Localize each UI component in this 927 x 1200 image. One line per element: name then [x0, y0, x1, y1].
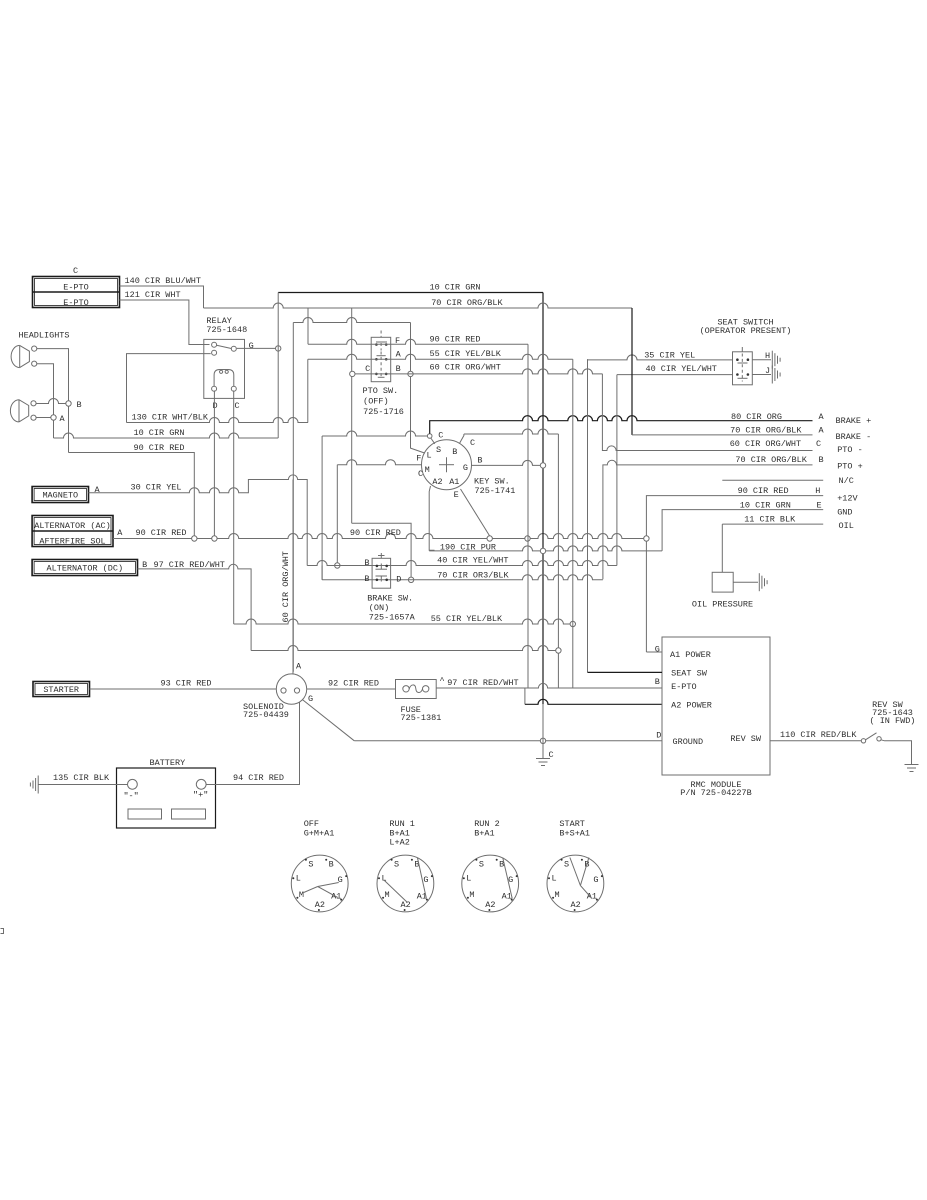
- wire wire 92 CIR RED: [307, 688, 396, 690]
- wire riser 410 to key L: [411, 323, 425, 454]
- svg-text:A1: A1: [449, 477, 459, 487]
- wire 10 CIR GRN lower: [54, 433, 279, 438]
- svg-text:A: A: [396, 350, 402, 360]
- svg-text:70 CIR ORG/BLK: 70 CIR ORG/BLK: [431, 298, 503, 308]
- svg-text:B: B: [655, 677, 660, 687]
- key position diagram START: [547, 855, 604, 912]
- wire 94 CIR RED: [206, 702, 299, 785]
- svg-text:725-04439: 725-04439: [243, 710, 289, 720]
- svg-text:70 CIR OR3/BLK: 70 CIR OR3/BLK: [437, 571, 509, 581]
- svg-text:40 CIR YEL/WHT: 40 CIR YEL/WHT: [437, 556, 508, 566]
- STARTER box: [33, 682, 90, 697]
- ground rev sw ground: [905, 764, 919, 766]
- svg-text:AFTERFIRE SOL: AFTERFIRE SOL: [39, 537, 105, 547]
- svg-text:C: C: [470, 438, 475, 448]
- svg-text:L: L: [551, 873, 556, 883]
- svg-text:C: C: [816, 439, 821, 449]
- node junction 97 row: [556, 648, 561, 653]
- wire key C2 diagonal: [460, 434, 464, 443]
- svg-text:725-1741: 725-1741: [475, 486, 516, 496]
- svg-text:G: G: [338, 875, 343, 885]
- svg-text:M: M: [425, 465, 430, 475]
- node junction 190PUR 10GRN: [540, 548, 545, 553]
- headlight lamp top: [19, 345, 21, 367]
- node node B: [66, 401, 71, 406]
- wire +12V row: [646, 496, 823, 536]
- svg-text:B: B: [452, 447, 457, 457]
- svg-text:40 CIR YEL/WHT: 40 CIR YEL/WHT: [646, 364, 717, 374]
- svg-text:HEADLIGHTS: HEADLIGHTS: [19, 331, 70, 341]
- svg-text:55 CIR YEL/BLK: 55 CIR YEL/BLK: [431, 614, 503, 624]
- svg-text:ALTERNATOR (DC): ALTERNATOR (DC): [47, 564, 124, 574]
- svg-text:725-1716: 725-1716: [363, 407, 404, 417]
- key switch 725-1741: [422, 440, 472, 490]
- svg-text:(OPERATOR PRESENT): (OPERATOR PRESENT): [700, 326, 792, 336]
- svg-text:B: B: [77, 400, 82, 410]
- svg-text:PTO +: PTO +: [837, 462, 863, 472]
- svg-text:GND: GND: [837, 508, 852, 518]
- wire relay G to junction: [237, 347, 279, 349]
- svg-text:30 CIR YEL: 30 CIR YEL: [131, 483, 182, 493]
- svg-text:A2 POWER: A2 POWER: [671, 701, 712, 711]
- RMC module P/N 725-04227B: [662, 637, 770, 775]
- wire 97 CIR RED/WHT from alternator DC: [138, 564, 252, 650]
- svg-text:A2: A2: [485, 900, 495, 910]
- wire 40 CIR YEL/WHT row: [307, 561, 617, 566]
- wire wire GROUND row: [354, 740, 662, 742]
- svg-text:60 CIR ORG/WHT: 60 CIR ORG/WHT: [430, 363, 501, 373]
- wire 70 CIR OR3/BLK row: [322, 575, 603, 580]
- svg-text:M: M: [469, 890, 474, 900]
- svg-text:E-PTO: E-PTO: [671, 682, 697, 692]
- svg-text:"-": "-": [123, 791, 138, 801]
- node junction 351 on 60ORG row: [350, 371, 355, 376]
- wire 35 CIR YEL: [588, 355, 733, 360]
- svg-text:M: M: [555, 890, 560, 900]
- node key C pin: [427, 434, 432, 439]
- svg-text:L: L: [466, 873, 471, 883]
- wire wire BRAKE- row: [632, 434, 813, 436]
- svg-text:B: B: [819, 455, 824, 465]
- wire wire 135 CIR BLK: [38, 784, 127, 786]
- svg-text:G: G: [655, 645, 660, 655]
- svg-text:E: E: [817, 501, 822, 511]
- svg-text:G: G: [308, 694, 313, 704]
- svg-text:F: F: [416, 453, 421, 463]
- svg-text:SEAT SW: SEAT SW: [671, 669, 708, 679]
- svg-text:N/C: N/C: [839, 476, 854, 486]
- wire 97 CIR RED/WHT alt row: [251, 646, 558, 651]
- svg-text:G+M+A1: G+M+A1: [304, 828, 335, 838]
- PTO switch actuator: [380, 331, 382, 337]
- node junction 90RED at 213: [212, 536, 217, 541]
- svg-text:60 CIR ORG/WHT: 60 CIR ORG/WHT: [281, 551, 291, 622]
- svg-text:B: B: [477, 455, 482, 465]
- node junction 90RED at 193: [192, 536, 197, 541]
- svg-text:L: L: [296, 873, 301, 883]
- key position diagram RUN2: [462, 855, 519, 912]
- key position diagram RUN1: [377, 855, 434, 912]
- ground oil pressure ground: [758, 573, 760, 591]
- svg-text:80 CIR ORG: 80 CIR ORG: [731, 412, 782, 422]
- wire wire key C pin diag: [431, 438, 435, 444]
- wire link 351 to 410: [352, 523, 411, 577]
- ground chassis ground C: [536, 758, 550, 760]
- svg-text:A: A: [819, 426, 825, 436]
- wire wire to chassis ground: [542, 704, 544, 758]
- wire wire 10 CIR GRN long vertical: [542, 293, 544, 705]
- svg-text:BRAKE +: BRAKE +: [836, 416, 872, 426]
- svg-text:M: M: [385, 890, 390, 900]
- svg-text:OIL PRESSURE: OIL PRESSURE: [692, 600, 753, 610]
- svg-text:725-1381: 725-1381: [401, 713, 442, 723]
- svg-text:90 CIR RED: 90 CIR RED: [430, 335, 481, 345]
- svg-text:BRAKE SW.: BRAKE SW.: [367, 594, 413, 604]
- node node A: [51, 415, 56, 420]
- svg-text:60 CIR ORG/WHT: 60 CIR ORG/WHT: [730, 439, 801, 449]
- svg-text:KEY SW.: KEY SW.: [474, 477, 510, 487]
- svg-text:93 CIR RED: 93 CIR RED: [161, 679, 212, 689]
- wire 60 CIR ORG/WHT PTO B row: [352, 369, 602, 374]
- svg-text:S: S: [436, 445, 441, 455]
- wire wire 110 CIR RED/BLK: [770, 740, 861, 742]
- ground battery ground: [37, 776, 39, 794]
- wire wire relay area to key L riser: [293, 318, 410, 323]
- svg-text:B: B: [364, 574, 369, 584]
- svg-text:725-1648: 725-1648: [206, 325, 247, 335]
- node junction 90RED at 527: [525, 536, 530, 541]
- svg-text:BRAKE -: BRAKE -: [836, 432, 872, 442]
- node junction 410 on 60ORG row: [408, 371, 413, 376]
- svg-text:725-1657A: 725-1657A: [369, 613, 416, 623]
- wire wire key M riser: [336, 465, 338, 563]
- solenoid 725-04439: [276, 674, 306, 704]
- svg-text:G: G: [593, 875, 598, 885]
- wire 90 CIR RED PTO F row: [308, 339, 528, 344]
- ALTERNATOR (DC) box: [32, 560, 137, 576]
- node relay G junction: [276, 346, 281, 351]
- node junction ground row: [540, 738, 545, 743]
- svg-text:B+A1: B+A1: [474, 828, 494, 838]
- wire rev sw to ground: [881, 740, 912, 765]
- wire 90 CIR RED headlights: [69, 453, 195, 537]
- svg-text:PTO -: PTO -: [837, 445, 863, 455]
- svg-text:( IN FWD): ( IN FWD): [870, 716, 916, 726]
- wire wire key C row west: [322, 431, 427, 436]
- svg-text:130 CIR WHT/BLK: 130 CIR WHT/BLK: [132, 413, 209, 423]
- wire wire relay C down: [233, 391, 235, 625]
- svg-text:A2: A2: [400, 900, 410, 910]
- svg-text:B: B: [329, 860, 334, 870]
- svg-text:10 CIR GRN: 10 CIR GRN: [740, 501, 791, 511]
- key switch center cross: [439, 464, 454, 466]
- ground seat H ground: [771, 351, 773, 369]
- wire OIL row: [722, 524, 823, 572]
- brake switch 725-1657A: [372, 558, 391, 588]
- svg-text:135 CIR BLK: 135 CIR BLK: [53, 773, 110, 783]
- wire wire A1 drop: [645, 541, 647, 652]
- svg-text:L: L: [426, 451, 431, 461]
- svg-text:S: S: [394, 860, 399, 870]
- svg-text:90 CIR RED: 90 CIR RED: [350, 528, 401, 538]
- svg-text:E-PTO: E-PTO: [63, 298, 89, 308]
- wire wire 70 ORG/BLK vertical: [631, 308, 633, 435]
- wire 40 CIR YEL/WHT seat row: [617, 374, 733, 376]
- wire wire 90 CIR RED riser 527: [527, 344, 529, 688]
- svg-text:C: C: [73, 266, 78, 276]
- wire wire lamp2 to node B: [36, 399, 66, 404]
- headlight lamp bottom: [18, 400, 20, 422]
- wire wire 40 riser: [616, 375, 618, 566]
- wire GND row: [662, 510, 823, 551]
- seat switch box: [733, 352, 753, 385]
- wire key C to BRAKE+: [430, 421, 521, 434]
- svg-text:^: ^: [439, 676, 444, 686]
- svg-text:B: B: [364, 558, 369, 568]
- svg-text:(OFF): (OFF): [363, 397, 389, 407]
- svg-text:70 CIR ORG/BLK: 70 CIR ORG/BLK: [735, 455, 807, 465]
- wire 55 CIR YEL/BLK lower row: [234, 619, 573, 624]
- svg-text:10 CIR GRN: 10 CIR GRN: [430, 283, 481, 293]
- svg-text:E-PTO: E-PTO: [63, 283, 89, 293]
- wire key A2 drop: [429, 486, 434, 550]
- svg-text:E: E: [454, 490, 459, 500]
- svg-text:A: A: [60, 414, 66, 424]
- svg-text:35 CIR YEL: 35 CIR YEL: [644, 351, 695, 361]
- MAGNETO box: [32, 487, 88, 503]
- wire wire solenoid A: [292, 480, 294, 674]
- svg-text:D: D: [396, 574, 401, 584]
- reverse switch 725-1643: [861, 739, 865, 743]
- svg-text:STARTER: STARTER: [43, 685, 79, 695]
- svg-text:"+": "+": [193, 790, 208, 800]
- wire headlight second to A: [37, 364, 54, 415]
- svg-text:121 CIR WHT: 121 CIR WHT: [125, 290, 181, 300]
- svg-text:BATTERY: BATTERY: [150, 758, 186, 768]
- wire wire key C2 riser down: [557, 434, 559, 688]
- wire 130 CIR WHT/BLK: [127, 418, 309, 423]
- svg-text:A: A: [95, 485, 101, 495]
- relay contact circles: [212, 342, 217, 347]
- node junction M riser on 40YEL row: [335, 563, 340, 568]
- svg-text:C: C: [365, 364, 370, 374]
- svg-text:55 CIR YEL/BLK: 55 CIR YEL/BLK: [430, 349, 502, 359]
- wire 140 CIR BLU/WHT: [120, 286, 204, 308]
- svg-text:C: C: [438, 431, 443, 441]
- wire wire oil to ground: [733, 581, 758, 583]
- node junction G on 10GRN vert: [540, 463, 545, 468]
- svg-text:D: D: [656, 731, 661, 741]
- svg-text:GROUND: GROUND: [673, 737, 704, 747]
- svg-text:(ON): (ON): [369, 603, 389, 613]
- wire wire seat H: [752, 359, 771, 361]
- wire BRAKE+ continued: [521, 416, 813, 421]
- wire wire PTO A to 130: [307, 359, 309, 422]
- svg-text:G: G: [463, 463, 468, 473]
- stray margin mark: [1, 929, 4, 934]
- svg-text:A2: A2: [432, 477, 442, 487]
- svg-text:140 CIR BLU/WHT: 140 CIR BLU/WHT: [125, 276, 202, 286]
- oil pressure sender: [712, 572, 733, 592]
- relay coil: [214, 370, 234, 387]
- svg-text:M: M: [299, 890, 304, 900]
- svg-text:REV SW: REV SW: [730, 734, 762, 744]
- svg-text:G: G: [423, 875, 428, 885]
- wire PTO+ row: [603, 460, 813, 579]
- svg-text:G: G: [249, 341, 254, 351]
- fuse 725-1381: [396, 680, 437, 699]
- svg-text:PTO SW.: PTO SW.: [363, 386, 399, 396]
- ALTERNATOR AC / AFTERFIRE SOL box: [32, 516, 113, 547]
- svg-text:C: C: [418, 469, 423, 479]
- svg-text:A1: A1: [587, 892, 597, 902]
- node junction 55 to EPTO riser: [570, 621, 575, 626]
- svg-text:C: C: [234, 401, 239, 411]
- svg-text:90 CIR RED: 90 CIR RED: [134, 443, 185, 453]
- svg-text:S: S: [564, 860, 569, 870]
- wire wire key C west lower: [321, 566, 323, 580]
- wire wire key L riser: [292, 323, 294, 672]
- svg-text:110 CIR RED/BLK: 110 CIR RED/BLK: [780, 730, 857, 740]
- svg-text:A2: A2: [315, 900, 325, 910]
- wire 121 CIR WHT: [120, 300, 210, 345]
- wire wire 10 CIR GRN vertical: [277, 293, 279, 439]
- svg-text:70 CIR ORG/BLK: 70 CIR ORG/BLK: [730, 426, 802, 436]
- wire relay to 130 CIR WHT/BLK: [127, 354, 211, 423]
- wire wire EPTO riser: [572, 359, 574, 688]
- wire wire seat J: [752, 374, 771, 376]
- wire 70 CIR ORG/BLK top: [204, 303, 633, 308]
- E-PTO connector block: [33, 277, 120, 308]
- wire wire lamp2 lower to node A: [36, 417, 51, 419]
- wire 30 CIR YEL: [89, 475, 308, 566]
- svg-text:S: S: [308, 860, 313, 870]
- wire 190 CIR PUR row: [429, 546, 662, 551]
- ground seat J ground: [771, 366, 773, 384]
- svg-text:90 CIR RED: 90 CIR RED: [738, 486, 789, 496]
- PTO switch 725-1716: [371, 337, 391, 381]
- svg-text:S: S: [479, 860, 484, 870]
- wire wire node A down: [53, 420, 55, 438]
- svg-text:92 CIR RED: 92 CIR RED: [328, 679, 379, 689]
- relay switch blade: [217, 345, 232, 348]
- svg-text:D: D: [212, 401, 217, 411]
- PTO pin dots: [375, 343, 378, 346]
- svg-text:ALTERNATOR (AC): ALTERNATOR (AC): [34, 521, 111, 531]
- svg-text:90 CIR RED: 90 CIR RED: [136, 528, 187, 538]
- svg-text:10 CIR GRN: 10 CIR GRN: [134, 428, 185, 438]
- node junction 90RED key E: [487, 536, 492, 541]
- wire 10 CIR GRN top: [278, 292, 543, 294]
- wire headlight top to B: [37, 349, 69, 453]
- svg-text:A: A: [819, 412, 825, 422]
- wire 55 CIR YEL/BLK PTO A row: [308, 354, 573, 359]
- wire wire SEAT SW row: [588, 671, 663, 673]
- svg-text:A2: A2: [570, 900, 580, 910]
- node junction 90RED at 646: [644, 536, 649, 541]
- wire 97 CIR RED/WHT fuse row to module E-PTO: [436, 683, 662, 688]
- svg-text:A: A: [117, 528, 123, 538]
- wire wire key E diagonal: [461, 489, 490, 536]
- wire wire A1 POWER row: [646, 651, 662, 653]
- wire wire key M row: [337, 460, 421, 465]
- wire wire relay D down: [213, 391, 215, 536]
- svg-text:97 CIR RED/WHT: 97 CIR RED/WHT: [447, 678, 518, 688]
- svg-text:H: H: [815, 486, 820, 496]
- wire 90 CIR RED bus: [113, 534, 646, 539]
- wire wire 70ORG vertical to PTO F: [307, 308, 309, 344]
- svg-text:11 CIR BLK: 11 CIR BLK: [744, 515, 796, 525]
- svg-text:B+S+A1: B+S+A1: [559, 828, 590, 838]
- svg-text:A1: A1: [502, 892, 512, 902]
- svg-text:MAGNETO: MAGNETO: [42, 491, 78, 501]
- svg-text:A: A: [296, 662, 302, 672]
- svg-text:L+A2: L+A2: [389, 838, 409, 848]
- svg-text:OIL: OIL: [839, 521, 854, 531]
- svg-text:A1 POWER: A1 POWER: [670, 650, 711, 660]
- wire 35 riser: [587, 359, 589, 672]
- wire wire N/C row: [722, 479, 823, 481]
- wire wire key C2 row: [464, 429, 559, 434]
- wire wire key C west riser: [321, 436, 323, 580]
- wire wire 93 CIR RED: [90, 688, 277, 690]
- svg-text:B: B: [396, 364, 401, 374]
- wire fuse row to A2 jog: [524, 688, 526, 704]
- key position diagram OFF: [291, 855, 348, 912]
- svg-text:P/N 725-04227B: P/N 725-04227B: [680, 788, 751, 798]
- wire wire 70ORG branch at 351: [351, 308, 353, 523]
- wire wire A2 POWER row: [525, 699, 662, 704]
- wire wire solenoid G diagonal: [302, 700, 354, 741]
- wire PTO- row: [602, 374, 812, 451]
- svg-text:94 CIR RED: 94 CIR RED: [233, 773, 284, 783]
- wire wire key G row: [472, 460, 544, 465]
- node junction brake D riser: [408, 577, 413, 582]
- svg-text:+12V: +12V: [837, 494, 858, 504]
